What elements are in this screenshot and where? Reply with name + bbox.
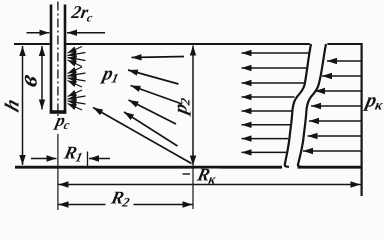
dimension R1 right tick: [87, 152, 89, 167]
compression wave front right curve: [298, 44, 326, 167]
label 2rc: [69, 2, 96, 24]
svg-text:p1: p1: [99, 64, 122, 86]
svg-text:h: h: [2, 96, 23, 115]
wave left arrow row 6: [242, 124, 291, 126]
wave right arrow row 3: [315, 90, 361, 92]
p1 fan arrow 1: [132, 57, 185, 58]
pressure burst cluster 3: [68, 90, 86, 110]
wave left arrow row 4: [242, 96, 295, 98]
p1 fan arrow 2: [128, 70, 179, 84]
label pk: [362, 90, 384, 114]
wave right arrow row 7: [303, 150, 361, 152]
bottom boundary line: [15, 166, 363, 169]
svg-text:2rc: 2rc: [69, 2, 96, 24]
wave right arrow row 6: [308, 135, 361, 137]
dimension 2rc left arrow: [27, 32, 50, 34]
svg-text:в: в: [15, 71, 43, 89]
svg-text:p2: p2: [170, 95, 192, 118]
pressure burst cluster 1: [68, 47, 86, 67]
centerline extension below borehole: [57, 114, 59, 210]
p1 fan arrow 3: [131, 86, 183, 105]
svg-text:pк: pк: [362, 90, 384, 114]
label R1: [61, 143, 85, 165]
wave right arrow row 1: [327, 60, 361, 62]
dimension 2rc right arrow: [67, 32, 105, 34]
wave left arrow row 2: [242, 67, 309, 69]
label p2: [170, 95, 192, 118]
right boundary edge: [361, 43, 363, 196]
wave left arrow row 5: [242, 110, 293, 112]
p1 fan arrow 6 long: [93, 108, 192, 164]
borehole right wall: [64, 5, 67, 112]
compression wave front left curve: [285, 44, 311, 167]
extension line at R2: [192, 167, 194, 209]
dimension p2 line: [192, 46, 194, 166]
label R2: [106, 188, 134, 210]
label p1: [99, 64, 122, 86]
dimension v line: [41, 46, 43, 110]
p1 fan arrow 5: [124, 112, 178, 146]
label Rk: [194, 165, 219, 187]
label pc: [52, 110, 73, 134]
pressure burst cluster 2: [68, 67, 86, 87]
label h: [2, 96, 23, 115]
dimension Rk line: [59, 184, 361, 186]
dimension R1 left arrow: [31, 158, 57, 160]
wave left arrow row 7: [242, 138, 289, 140]
wave right arrow row 2: [322, 75, 361, 77]
ground surface top line: [14, 43, 363, 45]
wave right arrow row 4: [311, 105, 361, 107]
Rk leader dash: [183, 173, 191, 175]
wave right arrow row 5: [309, 120, 361, 122]
wave left arrow row 1: [242, 52, 311, 54]
borehole left wall: [50, 5, 53, 112]
dimension R1 right arrow: [89, 158, 110, 160]
wave left arrow row 3: [242, 82, 306, 84]
label v: [15, 71, 43, 89]
dimension R2 line: [59, 204, 193, 206]
p1 fan arrow 4: [129, 100, 177, 124]
borehole bottom plug: [50, 110, 67, 114]
wave left arrow row 8: [242, 151, 287, 153]
dimension h line: [22, 46, 24, 165]
borehole centerline: [57, 2, 59, 114]
